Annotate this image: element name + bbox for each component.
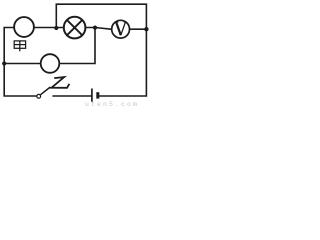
svg-text:uten5.com: uten5.com (85, 101, 139, 108)
